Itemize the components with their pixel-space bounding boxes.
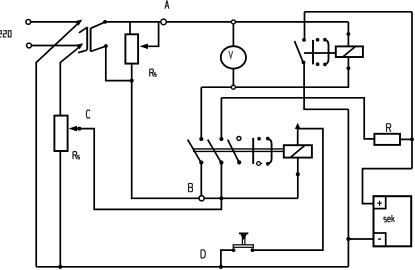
label sek [384,215,395,222]
label R [387,124,391,132]
wire top bus to A [105,21,161,23]
button SB contact right dot [251,248,255,252]
junction [296,172,300,176]
switch S1 blade pole1 [36,22,79,62]
wire QS pole1 top [200,87,202,138]
wire Rs1 top lead [129,22,131,34]
contact K1b circle bottom [257,162,261,166]
contact K1b dot top [257,137,261,141]
relay coil K1 [284,145,312,157]
button SB stem right [244,234,246,245]
switch QS pole3 blade [228,140,240,163]
wire [32,45,77,47]
wire pole1 to B [200,163,202,196]
wire B bus [204,197,298,199]
wire right edge vertical [411,12,413,169]
battery sek box [374,196,412,246]
contact K1b curved bar [268,139,272,164]
connector X1 slant out pole2 [91,46,106,51]
wire corner to K2 coil top [347,22,349,47]
button SB contact left dot [232,248,236,252]
label Rs1 [150,69,156,76]
connector X1 slant out pole1 [91,22,105,28]
junction [347,66,351,70]
resistor Rs1 [125,34,138,63]
connector X1 bar1 [86,27,88,50]
wire Rs2 bottom lead [59,151,61,267]
node 220V supply label [0,31,11,37]
resistor Rs1 wiper arrow [140,44,148,50]
wire pole2 down [220,163,222,199]
terminal L1 [26,20,31,25]
wire [59,62,61,116]
contact K1a fixed dot [302,38,306,42]
junction [347,32,351,36]
junction [103,20,107,24]
connector X1 slant stub lower [78,50,87,53]
junction [130,79,134,83]
switch QS pole1 top dot [199,137,203,141]
junction [219,196,223,200]
battery sek minus cell [374,233,386,246]
junction [77,127,81,131]
junction [58,265,62,269]
wire bus y87 right part [235,57,348,87]
junction voltmeter top [231,20,235,24]
switch QS pole2 blade [208,140,222,163]
switch QS pole3 top circle [237,136,241,140]
wire C detour [72,129,221,210]
junction [104,44,108,48]
wire [166,21,231,23]
wire [35,62,37,267]
wire wiper to node A drop [146,22,159,46]
terminal A [161,19,167,25]
wire voltmeter top lead [232,24,234,46]
button SB cap [239,232,248,234]
wire bus y87 left part [201,86,231,88]
wire R right lead [400,138,412,140]
wire K1 coil bottom lead [297,158,299,199]
wire [106,46,132,80]
switch QS pole3 bottom dot [237,160,241,164]
terminal L2 [27,43,32,48]
wire bottom bus [36,266,348,268]
connector X1 slant stub [79,27,87,33]
terminal B [199,196,204,201]
label C [86,110,89,118]
wire voltmeter bottom lead [232,69,234,86]
relay coil K1 diagonal [291,146,305,158]
switch S1 blade pole2 [60,46,80,62]
label minus [378,238,381,240]
voltmeter V [221,46,246,68]
wire sek minus lead [348,238,373,240]
wire [31,21,77,23]
button SB arrow [240,234,247,240]
label Rs2 [73,152,79,160]
wire D riser [221,250,234,267]
button SB plate [233,245,253,248]
arrow up on K1 coil [295,123,301,129]
wire bus y97.8 [221,98,374,139]
resistor Rs2 [54,116,67,151]
contact K1a bottom dot [302,61,306,65]
contact K1b curved dot top [266,137,270,141]
wire [235,21,348,23]
wire K2 branch top [304,12,306,40]
junction [219,265,223,269]
junction voltmeter bottom [231,85,235,89]
wire top right bus [305,11,413,13]
switch QS pole1 blade [188,140,202,163]
contact K2a curved bar dot top [323,38,327,42]
contact K1b bar [252,138,254,164]
wire K1 top to button [253,129,323,251]
contact K2a dot bottom [316,62,320,66]
button SB stem left [241,234,243,245]
relay coil K2 [336,46,363,57]
contact K2a curved bar dot bottom [323,63,327,67]
label plus [377,201,382,206]
contact K2a bar [312,40,314,65]
wire sek plus lead [363,169,413,204]
switch S1 blade arrow pole1 [75,20,83,26]
switch QS link line lower [193,150,284,152]
switch QS pole2 bottom dot [219,160,223,164]
contact K2a dot top [316,38,320,42]
junction [410,138,414,142]
relay coil K2 diagonal [343,47,355,57]
battery sek plus cell [374,196,386,208]
contact K2a curved bar [325,40,329,65]
label A [165,0,169,8]
wire [304,63,348,109]
switch S1 blade arrow pole2 [76,43,84,49]
switch QS pole2 top dot [219,137,223,141]
wire K1 coil top lead [297,129,299,146]
resistor Rs2 wiper arrow [69,126,77,132]
resistor R [374,134,400,145]
wire Rs1 bottom lead [131,64,133,81]
wire K2 contact link [304,52,336,54]
junction [346,237,350,241]
switch QS pole1 bottom dot [199,160,203,164]
contact K1b circle tail [261,163,263,165]
contact K1b curved dot bottom [266,162,270,166]
wire right mid vertical [347,109,349,266]
label V [229,51,233,58]
wire QS pole2 top [220,98,222,139]
label B [189,183,193,191]
contact K1a blade [295,41,304,63]
connector X1 bar2 [90,28,92,51]
label D [201,250,205,258]
wire left branch down to B [132,81,199,199]
switch QS link line upper [193,148,284,150]
